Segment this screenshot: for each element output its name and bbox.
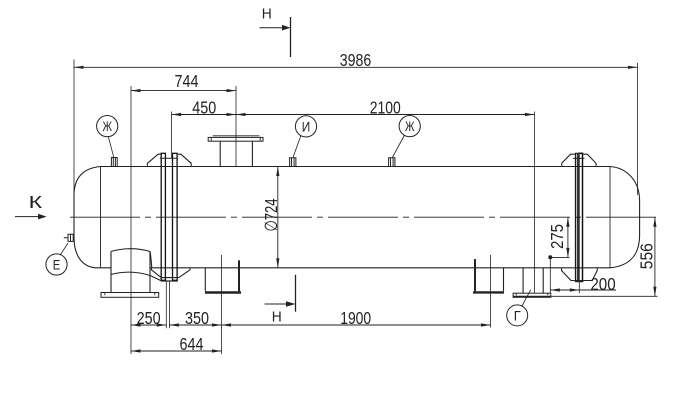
svg-text:∅724: ∅724 — [261, 198, 281, 231]
ext line x172.7 — [171, 112, 173, 159]
dimension arrowheads — [38, 25, 656, 353]
1900 arrows — [222, 323, 232, 326]
svg-text:3986: 3986 — [340, 50, 372, 70]
200 arrows — [550, 288, 560, 291]
dim 556 line — [654, 217, 656, 296]
2100 arrows — [236, 113, 246, 116]
flange center ext for 200 — [578, 282, 580, 294]
dim 744 line — [131, 90, 236, 92]
svg-text:Е: Е — [53, 257, 61, 272]
circle label Е — [46, 254, 67, 275]
bottom ref line for 556 — [551, 295, 658, 297]
svg-text:H: H — [272, 309, 282, 326]
bottom-left nozzle flange — [101, 293, 159, 298]
girth flange right: bottom gussets — [562, 268, 598, 280]
centerline vessel axis — [70, 216, 657, 218]
svg-text:И: И — [302, 119, 311, 134]
leader to Е — [61, 243, 69, 255]
left head — [74, 167, 101, 268]
dim 275 line — [567, 217, 569, 257]
nozzle Ж1 stub — [111, 158, 117, 167]
section H top arrowhead — [282, 25, 291, 31]
556 arrows — [653, 217, 656, 227]
svg-text:350: 350 — [185, 308, 209, 328]
ext line right end of 3986 — [637, 63, 639, 195]
shell top line — [101, 166, 611, 168]
right saddle centerline extension — [490, 255, 492, 328]
dim 644 line — [131, 350, 222, 352]
ext line x236 nozzle center — [235, 86, 237, 167]
leader to И — [293, 136, 301, 158]
reference dot — [548, 255, 552, 259]
275 arrows — [566, 217, 569, 227]
right head — [610, 167, 640, 268]
dim 200 line — [550, 289, 616, 291]
svg-text:200: 200 — [590, 274, 616, 294]
girth flange right: gasket cross line — [573, 157, 585, 159]
dim 3986 line — [74, 66, 638, 68]
section H bottom: plane line — [295, 275, 297, 312]
svg-text:250: 250 — [137, 308, 161, 328]
350 arrows — [169, 323, 179, 326]
circle label И — [295, 116, 316, 137]
svg-text:Ж: Ж — [102, 119, 112, 134]
circle label Г — [507, 305, 528, 326]
girth flange left: top gussets — [147, 154, 191, 166]
nozzle И stub — [290, 158, 296, 167]
bottom-left nozzle lower arc — [111, 272, 161, 281]
ext line x131 — [130, 86, 132, 354]
svg-text:644: 644 — [180, 334, 204, 354]
Ф724 arrows — [276, 167, 279, 177]
girth flange left: bottom gussets — [151, 268, 190, 277]
nozzle Е stub on head — [64, 234, 73, 241]
nozzle Ж2 stub — [389, 158, 395, 167]
dim 250 350 1900 line — [131, 324, 491, 326]
view K arrow line — [15, 216, 40, 218]
dim Ф724 line — [277, 167, 279, 268]
bottom-left nozzle top arc — [111, 249, 152, 269]
section H top: arrow line — [260, 27, 285, 29]
top nozzle neck — [220, 141, 252, 166]
svg-text:К: К — [29, 192, 44, 212]
circle label Ж2 — [399, 116, 420, 137]
3986 arrows — [74, 66, 84, 69]
450 arrows — [172, 113, 182, 116]
svg-text:556: 556 — [636, 243, 656, 269]
leader to Ж1 — [108, 136, 114, 157]
nozzle Г flange — [513, 293, 551, 297]
girth flange right: bottom cap — [575, 281, 583, 283]
girth flange right: top gussets — [562, 154, 596, 166]
girth flange left: bottom cap — [161, 280, 178, 282]
dot extension line down — [549, 257, 551, 293]
section H bottom arrowhead — [286, 301, 296, 307]
svg-text:450: 450 — [192, 98, 216, 118]
view K arrowhead — [38, 214, 47, 220]
leader to Ж2 — [392, 136, 404, 158]
svg-text:Ж: Ж — [405, 119, 415, 134]
nozzle Г neck — [523, 268, 543, 293]
left saddle support — [204, 268, 206, 292]
left saddle centerline extension — [221, 255, 223, 354]
svg-text:744: 744 — [175, 71, 199, 91]
top nozzle flange plate — [208, 137, 263, 141]
ext line x534.4 — [533, 112, 535, 294]
svg-text:H: H — [262, 5, 272, 22]
dim 450 and 2100 line — [172, 114, 535, 116]
girth flange left: bolt strips — [161, 153, 165, 280]
girth flange right: bolt strips — [575, 153, 577, 281]
section H bottom: arrow line — [265, 303, 290, 305]
right saddle support — [503, 268, 505, 291]
bottom-left nozzle body — [111, 252, 150, 293]
section H top: plane line — [290, 17, 292, 57]
ext line left end of 3986 — [73, 60, 75, 232]
ext lines flange faces — [166, 282, 169, 329]
leader to Г — [522, 290, 531, 307]
left head tangent weld line — [100, 167, 102, 268]
644 arrows — [131, 349, 141, 352]
shell bottom line — [95, 267, 610, 269]
svg-text:275: 275 — [547, 224, 567, 249]
girth flange left: gasket cross line — [160, 157, 178, 159]
right head tangent weld line — [609, 167, 611, 268]
svg-text:Г: Г — [514, 308, 522, 323]
svg-text:2100: 2100 — [370, 98, 401, 118]
250 arrows — [131, 323, 141, 326]
744 arrows — [131, 89, 141, 92]
circle label Ж1 — [97, 116, 118, 137]
svg-text:1900: 1900 — [340, 308, 371, 328]
